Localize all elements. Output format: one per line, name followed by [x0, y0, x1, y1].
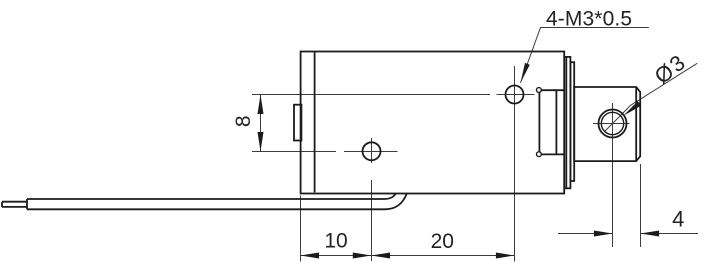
svg-text:4-M3*0.5: 4-M3*0.5 [546, 7, 632, 30]
svg-text:4: 4 [672, 206, 684, 231]
svg-text:Ø3: Ø3 [650, 49, 692, 89]
svg-text:20: 20 [431, 230, 454, 253]
svg-text:8: 8 [232, 115, 255, 127]
svg-text:10: 10 [324, 230, 347, 253]
